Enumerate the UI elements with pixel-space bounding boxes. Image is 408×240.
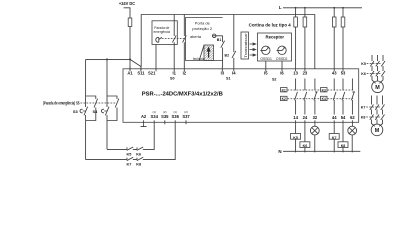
contact B1 (221, 41, 225, 48)
contact B2 (232, 51, 236, 58)
contactor contacts K5 (370, 61, 385, 66)
adjuster dial OSSD2 (278, 46, 286, 54)
svg-text:K5: K5 (126, 153, 131, 157)
internal contact 31-32 (NC) (314, 79, 316, 115)
wire 62 to lamp H2 (351, 124, 353, 126)
contact S0.2 (183, 35, 187, 42)
wire horizontal feed to start circuit (86, 58, 130, 60)
svg-text:(Parada de emergência) S5: (Parada de emergência) S5 (43, 100, 80, 105)
svg-text:Transmissor: Transmissor (243, 32, 248, 57)
box sensor S0 Parada de emergência (152, 21, 177, 45)
wire +24V vertical (124, 8, 130, 18)
terminal A1 (129, 66, 131, 71)
node junction +24V (129, 58, 131, 60)
motor M2 (371, 124, 383, 136)
svg-text:K8: K8 (136, 162, 141, 166)
svg-text:OSSD1: OSSD1 (260, 57, 272, 61)
svg-text:Receptor: Receptor (266, 35, 285, 40)
contact S0.1 (172, 35, 176, 42)
wire drop 43 (333, 8, 335, 17)
svg-text:53: 53 (341, 71, 346, 76)
node 23 on L (304, 7, 306, 9)
wire K7/K8 feedback branch (86, 124, 176, 159)
box Receptor (258, 33, 292, 61)
svg-text:K3: K3 (322, 88, 326, 92)
contact K8 (137, 157, 143, 160)
svg-text:44: 44 (332, 115, 337, 120)
terminal S11 (140, 66, 142, 71)
svg-text:K7: K7 (126, 162, 131, 166)
svg-text:Cortina de luz tipo 4: Cortina de luz tipo 4 (249, 22, 292, 27)
fuse F1 (128, 18, 132, 27)
terminal S36 (174, 120, 176, 124)
wire dashed link e-stop S5 (81, 102, 117, 104)
node 43 on L (333, 7, 335, 9)
svg-text:B2: B2 (225, 54, 230, 58)
sensor B1 (212, 34, 216, 38)
terminal 13 (295, 66, 297, 71)
wire dashed link S0 (162, 38, 185, 40)
svg-text:(1): (1) (152, 110, 155, 114)
svg-text:54: 54 (341, 115, 346, 120)
svg-text:emergência: emergência (154, 30, 171, 34)
terminal 23 (304, 66, 306, 71)
box sensor S1 Porta de proteção 2 (186, 18, 223, 61)
wire I2 sensor channel (183, 15, 185, 67)
contact S5.2 (NC) (115, 99, 119, 108)
svg-text:43: 43 (332, 71, 337, 76)
wire diagonal to S11 (130, 59, 141, 70)
internal contact 13-14 (295, 79, 297, 115)
wire I4 sensor channel (233, 15, 235, 67)
wire to A1 (129, 59, 131, 70)
door leaf (hatched) (204, 45, 214, 60)
loop S3/S5.1 (86, 96, 96, 160)
contactor coil K6 (300, 142, 310, 148)
wire 24 to K6 coil (304, 124, 306, 142)
svg-text:M: M (375, 85, 380, 91)
adjuster dial OSSD1 (262, 46, 270, 54)
relay coil K3 (321, 88, 328, 92)
svg-text:+24V DC: +24V DC (119, 1, 135, 6)
three-phase lines upper (372, 55, 383, 83)
svg-text:62: 62 (350, 115, 355, 120)
svg-text:14: 14 (293, 115, 298, 120)
door arrow (207, 46, 211, 58)
contact K5 (127, 147, 133, 150)
svg-text:K8: K8 (361, 116, 366, 120)
svg-text:S37: S37 (182, 114, 190, 119)
e-stop S0 actuator (156, 37, 162, 42)
terminal 54 (342, 120, 344, 124)
wire drop 23 (304, 8, 306, 17)
ground (141, 124, 147, 126)
loop S4/S5.2 (107, 96, 117, 149)
svg-text:aberta: aberta (190, 35, 201, 39)
svg-text:PSR-...-24DC/MXF3/4x1/2x2/B: PSR-...-24DC/MXF3/4x1/2x2/B (142, 91, 223, 97)
svg-text:OSSD2: OSSD2 (276, 57, 288, 61)
contactor contacts K7 (370, 105, 385, 110)
wire N rail (283, 150, 360, 152)
wire drop to S4 loop (106, 59, 108, 96)
pushbutton S3 actuator (80, 109, 86, 113)
wire S21 riser (155, 45, 157, 67)
motor M1 (372, 81, 384, 93)
wire I1 sensor channel (173, 15, 175, 67)
svg-text:K6: K6 (136, 153, 141, 157)
terminal 62 (351, 120, 353, 124)
wire drop to S3 loop (85, 59, 87, 96)
wire fuse to junction (129, 27, 131, 60)
fuse 23 (303, 17, 307, 27)
wire B1 to I3 (216, 36, 223, 67)
svg-text:S0: S0 (170, 77, 175, 81)
svg-text:Porta de: Porta de (195, 21, 210, 25)
dashed link K1 contacts (288, 90, 355, 99)
lamp H1 (310, 126, 319, 135)
svg-text:S2: S2 (272, 78, 277, 82)
internal contact 23-24 (304, 79, 306, 115)
svg-text:A1: A1 (127, 71, 133, 76)
lamp H2 (348, 126, 357, 135)
fuse 43 (332, 17, 336, 27)
svg-text:N: N (278, 149, 281, 154)
svg-text:(1): (1) (173, 110, 176, 114)
svg-text:S4: S4 (92, 109, 98, 114)
terminal I6 (281, 66, 283, 71)
three-phase lines lower (372, 96, 383, 127)
terminal 32 (314, 120, 316, 124)
wire K5/K6 feedback branch (107, 124, 154, 149)
contact K7 (127, 157, 133, 160)
terminal S21 (155, 66, 157, 71)
svg-text:proteção 2: proteção 2 (192, 27, 212, 31)
svg-text:K2: K2 (282, 97, 286, 101)
svg-text:K5: K5 (361, 62, 366, 66)
node 53 on L (342, 7, 344, 9)
relay coil K4 (321, 96, 328, 100)
svg-text:13: 13 (293, 71, 298, 76)
wire drop 13 (295, 8, 297, 17)
contactor contacts K8 (370, 115, 385, 120)
svg-text:(2): (2) (184, 110, 187, 114)
terminal 24 (304, 120, 306, 124)
contact S5.1 (NC) (94, 99, 98, 108)
internal contact 43-44 (333, 79, 335, 115)
svg-text:K6: K6 (361, 72, 366, 76)
node 13 on L (295, 7, 297, 9)
relay box PSR (123, 69, 359, 123)
pushbutton S3 contact (84, 107, 88, 116)
terminal I1 (173, 66, 175, 71)
pushbutton S4 contact (105, 107, 109, 116)
svg-text:K1: K1 (282, 88, 286, 92)
relay coil K2 (281, 96, 288, 100)
terminal 44 (333, 120, 335, 124)
wire 14 to K5 coil (295, 124, 297, 133)
internal contact 61-62 (NC) (351, 79, 353, 115)
contact K6 (137, 147, 143, 150)
wire OSSD2 to I6 (281, 61, 283, 67)
terminal I3 (221, 66, 223, 71)
wire drop 53 (342, 8, 344, 17)
wire sensor supply rail (141, 15, 315, 69)
terminal S35 (164, 120, 166, 124)
contactor coil K7 (329, 134, 339, 140)
svg-text:B1: B1 (217, 38, 222, 42)
svg-text:S11: S11 (137, 71, 145, 76)
terminal 53 (342, 66, 344, 71)
box Transmissor (241, 32, 249, 59)
internal contact 53-54 (342, 79, 344, 115)
svg-text:23: 23 (303, 71, 308, 76)
pushbutton S4 actuator (101, 109, 107, 113)
svg-text:M: M (375, 128, 380, 134)
terminal S37 (185, 120, 187, 124)
svg-text:S21: S21 (148, 71, 156, 76)
terminal I5 (265, 66, 267, 71)
fuse 53 (341, 17, 345, 27)
svg-text:A2: A2 (141, 114, 147, 119)
svg-text:K7: K7 (361, 106, 366, 110)
terminal 14 (295, 120, 297, 124)
terminal A2 (143, 120, 145, 124)
terminal 43 (333, 66, 335, 71)
node junction start branch (106, 58, 108, 60)
svg-text:S36: S36 (172, 114, 180, 119)
svg-text:K4: K4 (322, 97, 326, 101)
svg-text:L: L (279, 5, 282, 10)
wire 44 to K7 coil (333, 124, 335, 133)
terminal S34 (153, 120, 155, 124)
wire OSSD1 to I5 (265, 61, 267, 67)
door hinge line (199, 45, 204, 60)
svg-text:S35: S35 (161, 114, 169, 119)
svg-text:S3: S3 (73, 109, 79, 114)
wire L rail (283, 7, 362, 9)
contactor contacts K6 (370, 71, 385, 76)
terminal I4 (233, 66, 235, 71)
svg-text:S34: S34 (151, 114, 159, 119)
contactor coil K8 (338, 142, 348, 148)
terminal I2 (183, 66, 185, 71)
svg-text:24: 24 (303, 115, 308, 120)
wire 32 to lamp H1 (314, 124, 316, 126)
light beam arrows (250, 43, 256, 56)
svg-text:(2): (2) (163, 110, 166, 114)
relay coil K1 (281, 88, 288, 92)
svg-text:fechada: fechada (193, 57, 205, 61)
svg-text:32: 32 (313, 115, 318, 120)
wire 54 to K8 coil (342, 124, 344, 142)
fuse 13 (294, 17, 298, 27)
svg-text:S1: S1 (226, 77, 231, 81)
contactor coil K5 (291, 134, 301, 140)
